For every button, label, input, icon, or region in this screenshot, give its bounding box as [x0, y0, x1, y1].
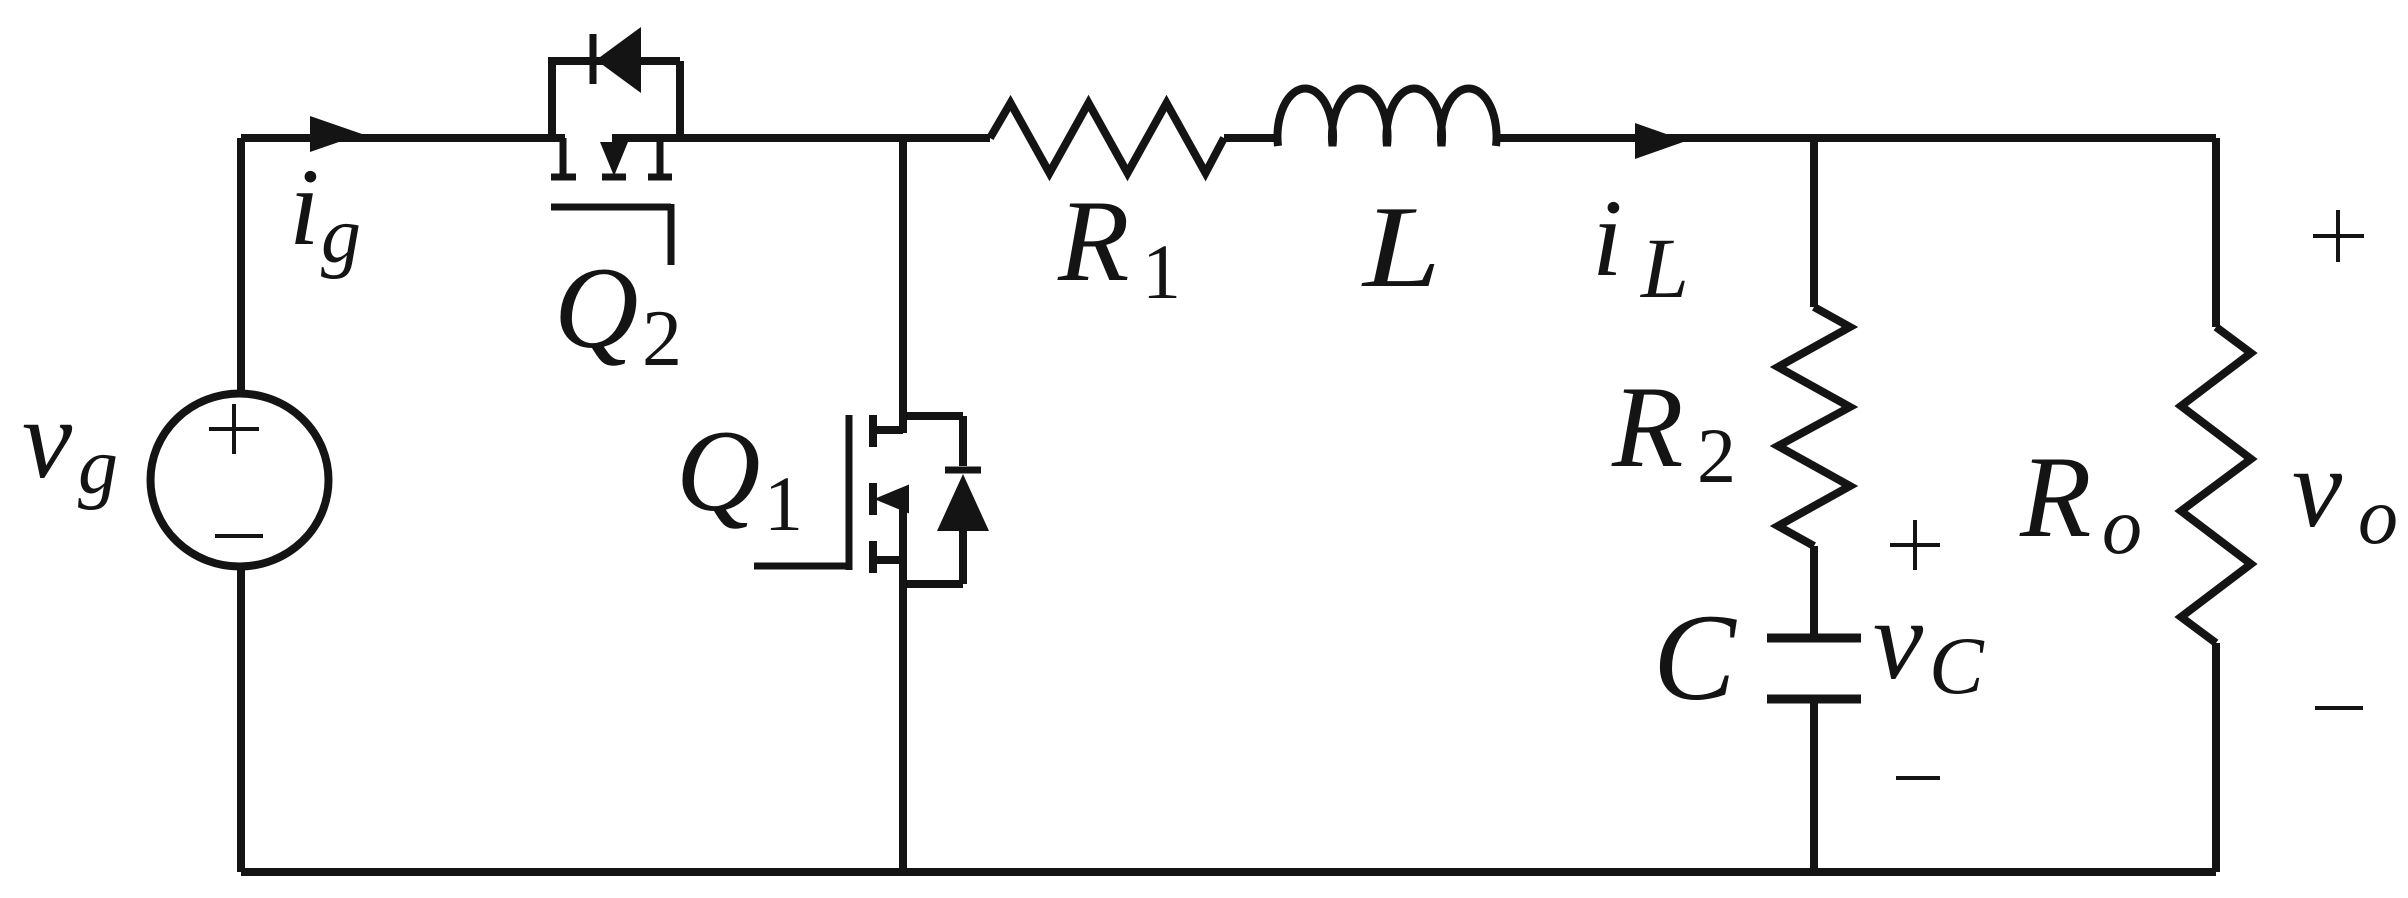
- svg-text:2: 2: [1697, 412, 1736, 499]
- svg-text:Q: Q: [554, 244, 639, 373]
- svg-text:R: R: [1057, 177, 1129, 306]
- svg-text:i: i: [1592, 177, 1623, 299]
- svg-text:g: g: [78, 423, 118, 511]
- svg-text:v: v: [22, 377, 73, 502]
- svg-text:R: R: [1611, 363, 1683, 492]
- svg-text:o: o: [2358, 473, 2398, 561]
- svg-text:o: o: [2102, 483, 2142, 571]
- svg-text:v: v: [2292, 426, 2343, 551]
- svg-text:1: 1: [1142, 228, 1181, 315]
- svg-text:g: g: [321, 192, 361, 280]
- svg-text:v: v: [1873, 578, 1924, 703]
- svg-text:L: L: [1361, 183, 1441, 312]
- svg-text:1: 1: [764, 460, 803, 547]
- svg-text:R: R: [2019, 433, 2091, 562]
- svg-text:L: L: [1639, 220, 1689, 316]
- svg-text:C: C: [1929, 620, 1985, 711]
- svg-text:C: C: [1653, 589, 1737, 726]
- svg-text:Q: Q: [676, 407, 761, 536]
- svg-text:i: i: [289, 146, 320, 268]
- svg-text:2: 2: [642, 295, 682, 383]
